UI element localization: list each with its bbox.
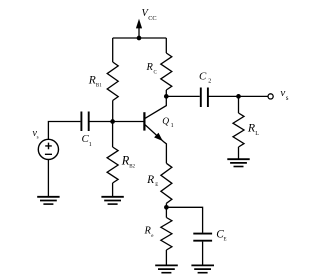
wire base node horizontal	[89, 121, 144, 123]
label C1	[82, 133, 92, 148]
svg-text:E: E	[224, 238, 227, 243]
capacitor CE	[193, 234, 212, 241]
resistor RE	[161, 163, 172, 203]
svg-text:B1: B1	[96, 84, 102, 89]
node output junction dot	[236, 94, 241, 99]
label Re	[144, 226, 155, 240]
node emitter junction dot	[164, 205, 169, 210]
wire top supply rail	[113, 37, 167, 39]
svg-text:R: R	[146, 174, 154, 186]
svg-text:v: v	[280, 87, 285, 99]
label RL	[247, 121, 259, 138]
label Q1	[162, 117, 173, 129]
svg-text:C: C	[199, 70, 207, 82]
wire RB1 top stub	[112, 38, 114, 62]
wire RE bottom stub	[165, 203, 167, 207]
svg-text:e: e	[151, 234, 154, 239]
capacitor C2	[201, 88, 208, 108]
capacitor C1	[81, 112, 88, 132]
svg-text:1: 1	[171, 123, 174, 129]
wire Re bottom stub	[165, 250, 167, 265]
node collector junction dot	[164, 94, 169, 99]
wire RL bottom stub	[238, 147, 240, 159]
wire source to ground	[47, 160, 49, 197]
wire RB1 bottom stub	[112, 101, 114, 122]
ground CE	[191, 265, 214, 272]
wire Re top stub	[165, 207, 167, 217]
svg-text:1: 1	[89, 142, 92, 148]
node base junction dot	[110, 119, 115, 124]
wire RC top stub	[165, 38, 167, 53]
label RB1	[88, 74, 102, 88]
transistor Q1	[144, 96, 166, 163]
wire emitter node to CE	[166, 207, 202, 232]
wire RL top stub	[238, 96, 240, 113]
wire source to C1	[48, 122, 80, 140]
label CE	[216, 229, 226, 243]
label vs output	[280, 87, 288, 102]
svg-text:C: C	[154, 70, 158, 75]
label RC	[146, 62, 158, 75]
label RE	[146, 174, 158, 188]
svg-text:L: L	[255, 131, 259, 137]
svg-text:s: s	[37, 136, 39, 141]
label C2	[199, 70, 211, 84]
svg-text:R: R	[88, 74, 96, 86]
svg-text:R: R	[144, 226, 152, 237]
svg-text:R: R	[146, 62, 154, 73]
resistor RB1	[107, 62, 118, 101]
wire C2 to output	[208, 95, 268, 97]
ground RB2	[101, 197, 123, 204]
wire RB2 top stub	[112, 122, 114, 148]
svg-text:CC: CC	[148, 15, 156, 22]
wire RB2 bottom stub	[112, 183, 114, 197]
svg-text:B2: B2	[129, 165, 135, 170]
resistor Re	[161, 218, 172, 251]
wire CE to ground	[202, 242, 204, 266]
svg-text:2: 2	[208, 79, 211, 85]
resistor RL	[233, 113, 244, 147]
source vs	[38, 139, 58, 159]
ground Re	[155, 265, 178, 272]
ground RL	[227, 159, 249, 166]
svg-text:E: E	[155, 183, 158, 188]
svg-text:Q: Q	[162, 117, 169, 127]
resistor RB2	[107, 147, 118, 183]
resistor RC	[161, 53, 172, 90]
output terminal circle	[268, 94, 273, 99]
label vs input	[33, 128, 39, 141]
ground source	[37, 197, 59, 204]
node Vcc junction dot	[137, 36, 142, 41]
Vcc supply arrow	[136, 19, 142, 38]
wire collector to C2	[166, 95, 200, 97]
wire RC bottom stub	[165, 90, 167, 96]
label RB2	[121, 154, 136, 170]
svg-text:s: s	[286, 94, 289, 102]
label VCC	[142, 8, 157, 22]
